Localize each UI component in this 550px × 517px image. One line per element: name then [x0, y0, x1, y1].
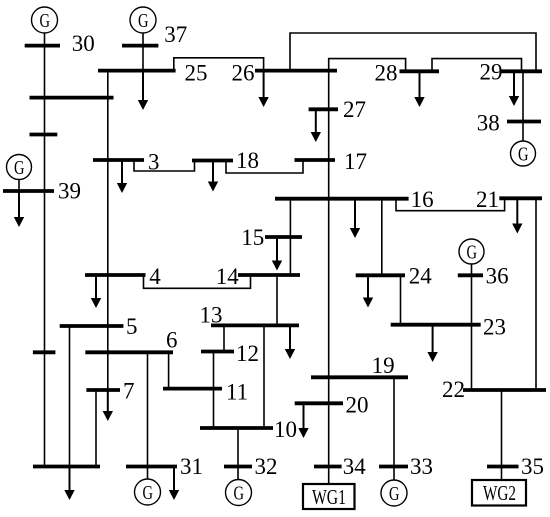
wire bus 22 to bus 35 to WG2 [501, 390, 503, 480]
bus 4 [85, 273, 146, 277]
load arrow at bus 21 [516, 198, 518, 224]
svg-text:7: 7 [123, 379, 135, 404]
svg-text:26: 26 [232, 61, 255, 86]
load arrow at bus 15 [276, 237, 278, 262]
wire bus 24 to bus 23 [400, 275, 402, 324]
wind generator WG1 box [303, 484, 355, 509]
load arrow at bus 24 [367, 275, 369, 298]
svg-text:20: 20 [346, 393, 369, 418]
svg-text:35: 35 [521, 454, 544, 479]
bus 16 [275, 197, 409, 201]
svg-text:WG2: WG2 [483, 481, 516, 505]
load arrow at bus 39 [18, 191, 20, 218]
bus 34 [314, 465, 342, 469]
bus 31 [126, 465, 177, 469]
svg-text:28: 28 [375, 61, 398, 86]
wire bus 6 to bus 11 [168, 352, 170, 388]
wire bus 19 to bus 33 to G33 [393, 377, 395, 480]
svg-text:36: 36 [486, 264, 509, 289]
bus 33 [379, 465, 408, 469]
svg-text:G: G [389, 483, 400, 505]
svg-text:22: 22 [442, 377, 465, 402]
bus 37 [122, 44, 158, 48]
load arrow at bus 28 [419, 71, 421, 98]
generator G30 circle [32, 7, 58, 33]
bus 21 [499, 196, 542, 200]
svg-text:24: 24 [409, 264, 433, 289]
wire riser bus 25 to link 25-26 [174, 58, 264, 71]
svg-text:18: 18 [236, 148, 259, 173]
bus 30 [25, 44, 60, 48]
svg-text:G: G [40, 10, 51, 32]
svg-text:39: 39 [58, 179, 81, 204]
wire G36 to bus 36 to bus 23 to bus 22 [471, 263, 473, 390]
load arrow at bus 8 [69, 467, 71, 492]
wire G30 to bus 30 to bus 8 (left chain) [44, 31, 46, 467]
svg-text:30: 30 [72, 31, 95, 56]
svg-text:12: 12 [236, 341, 259, 366]
load arrow at bus 29 [513, 71, 515, 97]
bus 2 [30, 96, 114, 100]
svg-text:10: 10 [274, 417, 297, 442]
bus 17 [295, 158, 336, 162]
svg-text:17: 17 [344, 149, 367, 174]
svg-text:31: 31 [180, 454, 203, 479]
svg-text:G: G [138, 10, 149, 32]
bus 8 [33, 465, 100, 469]
load arrow at bus 20 [303, 403, 305, 429]
generator G31 circle [135, 479, 161, 505]
load arrow at bus 23 [432, 325, 434, 353]
bus 22 [463, 388, 546, 392]
bus 27 [309, 107, 338, 111]
load arrow at bus 16 [354, 199, 356, 229]
svg-text:25: 25 [185, 61, 208, 86]
bus 14 [238, 273, 300, 277]
load arrow at bus 26 [263, 71, 265, 98]
svg-text:19: 19 [372, 353, 395, 378]
wire G39 to bus 39 [18, 180, 20, 192]
svg-text:6: 6 [166, 328, 178, 353]
wire link bus 18 to bus 17 [226, 160, 303, 173]
wire bus 5 to bus 8 [69, 326, 71, 467]
wire bus 16 to bus 24 [381, 199, 383, 275]
bus 23 [391, 323, 481, 327]
wire top link bus 26 to bus 29 [290, 33, 536, 71]
svg-text:15: 15 [241, 225, 264, 250]
wire link bus 28 to bus 29 [432, 59, 522, 72]
load arrow at bus 13 [289, 325, 291, 350]
wire bus 12 to bus 11 to bus 10 [213, 352, 215, 429]
svg-text:G: G [467, 242, 478, 264]
load arrow at bus 27 [315, 109, 317, 133]
generator G39 circle [7, 155, 32, 180]
bus 35 [487, 465, 519, 469]
bus 12 [201, 350, 234, 354]
bus 9 [33, 350, 56, 354]
generator G38 circle [511, 141, 536, 166]
svg-text:11: 11 [226, 380, 248, 405]
svg-text:WG1: WG1 [312, 485, 346, 509]
bus 32 [224, 465, 252, 469]
wire bus 21 to bus 22 [535, 198, 537, 390]
bus 15 [265, 235, 302, 239]
wire bus 26 to bus 27 to bus 17 to bus 16 to bus 19 to bus 20 to bus 34 to WG1 [328, 71, 330, 484]
bus 18 [192, 159, 233, 163]
svg-text:37: 37 [164, 22, 187, 47]
generator G36 circle [459, 239, 484, 264]
bus 1 [30, 133, 58, 137]
svg-text:34: 34 [343, 454, 367, 479]
load arrow at bus 31 [173, 467, 175, 492]
bus 13 [211, 323, 299, 327]
wire bus 16 to bus 15 to bus 14 [289, 199, 291, 275]
wind generator WG2 box [472, 480, 526, 506]
wire G37 through bus 37 to bus 25 [142, 31, 144, 71]
bus 36 [458, 273, 483, 277]
svg-text:29: 29 [480, 60, 503, 85]
bus 5 [60, 324, 124, 328]
wire link bus 3 to bus 18 [134, 160, 195, 171]
svg-text:G: G [14, 157, 25, 179]
svg-text:21: 21 [476, 187, 499, 212]
svg-text:G: G [234, 483, 245, 505]
svg-text:G: G [518, 144, 529, 166]
wire bus 13 to bus 10 [263, 325, 265, 428]
svg-text:14: 14 [216, 264, 240, 289]
bus 25 [98, 69, 176, 73]
load arrow at bus 18 [212, 161, 214, 183]
svg-text:32: 32 [255, 454, 278, 479]
svg-text:16: 16 [411, 187, 434, 212]
generator G32 circle [226, 480, 252, 506]
svg-text:27: 27 [343, 97, 366, 122]
svg-text:5: 5 [126, 314, 138, 339]
bus 7 [86, 388, 120, 392]
bus 26 [255, 69, 337, 73]
svg-text:23: 23 [483, 315, 506, 340]
wire link bus 16 to bus 21 [396, 198, 505, 210]
svg-text:3: 3 [148, 150, 160, 175]
bus 20 [295, 401, 343, 405]
bus 10 [200, 426, 273, 430]
svg-text:4: 4 [149, 264, 161, 289]
wire link bus 26 to bus 28 [329, 59, 406, 72]
generator G37 circle [130, 7, 156, 33]
wire link bus 4 to bus 14 [144, 275, 251, 288]
wire bus 14 to bus 13 [276, 275, 278, 325]
load arrow at bus 3 [121, 160, 123, 184]
load arrow at bus 7 [107, 390, 109, 412]
load arrow at bus 25 [142, 71, 144, 101]
wire bus 29 to bus 38 to G38 [522, 71, 524, 140]
wire bus 10 to bus 32 to G32 [237, 428, 239, 480]
bus 28 [400, 69, 440, 73]
bus 39 [3, 189, 54, 193]
bus 29 [501, 69, 542, 73]
load arrow at bus 4 [95, 275, 97, 299]
bus 6 [85, 350, 173, 354]
bus 24 [356, 273, 405, 277]
wire bus 25 to bus 2 to bus 3 to bus 4 to bus 5 to bus 6 to bus 7 [107, 71, 109, 390]
svg-text:33: 33 [410, 454, 433, 479]
generator G33 circle [381, 480, 407, 506]
wire bus 6 to bus 31 to G31 [147, 352, 149, 479]
svg-text:G: G [143, 482, 154, 504]
bus 19 [311, 375, 408, 379]
bus 38 [507, 120, 541, 124]
svg-text:38: 38 [477, 111, 500, 136]
bus 11 [163, 387, 222, 391]
bus 3 [93, 158, 144, 162]
wire bus 13 to bus 12 [223, 325, 225, 351]
wire bus 7 to bus 8 [95, 390, 97, 467]
svg-text:13: 13 [200, 303, 223, 328]
